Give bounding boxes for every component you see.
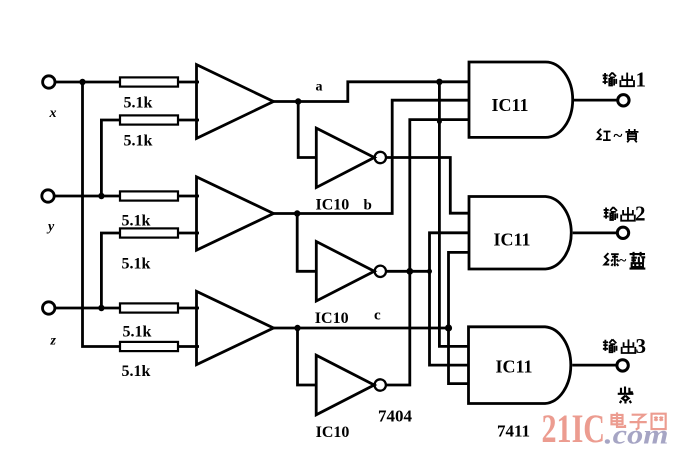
inverter U1 IC10: [316, 128, 374, 187]
svg-text:5.1k: 5.1k: [124, 95, 153, 112]
wire output 2: [573, 231, 617, 234]
resistor R1 5.1k: [120, 77, 178, 86]
svg-text:5.1k: 5.1k: [122, 256, 151, 273]
wire a to inverter U1 input: [298, 102, 317, 158]
wire node a: [274, 82, 470, 102]
inverter U3 bubble: [375, 379, 386, 390]
input terminal z: [43, 302, 55, 314]
node b dot: [294, 210, 300, 216]
node x junction: [79, 79, 85, 85]
inverter U1 bubble: [375, 152, 386, 163]
node blob at a/c-bar crossing: [437, 119, 442, 124]
output terminal 3: [617, 360, 628, 371]
svg-text:b: b: [364, 198, 372, 214]
resistor R5 5.1k: [120, 303, 178, 312]
svg-text:y: y: [46, 220, 55, 235]
node a2 dot: [436, 79, 442, 85]
svg-text:z: z: [50, 334, 57, 349]
buffer amp A3: [197, 291, 274, 364]
watermark 子: [630, 415, 647, 430]
wire R2 to buffer1: [178, 119, 199, 122]
inverter U3 IC10: [316, 355, 374, 415]
label 黄 of 红~黄: [625, 129, 638, 142]
wire z row: [55, 307, 120, 310]
output terminal 1: [618, 95, 629, 106]
wire output 3: [572, 364, 617, 367]
svg-text:7411: 7411: [497, 422, 530, 441]
label 输 of 输出3: [603, 339, 617, 352]
label 输 of 输出2: [604, 207, 618, 220]
node b-bar crossing dot: [406, 268, 413, 275]
wire y row: [54, 195, 120, 198]
svg-text:2: 2: [635, 202, 646, 226]
svg-text:~: ~: [614, 126, 623, 145]
node b-bar tee dot: [427, 269, 432, 274]
resistor R4 5.1k: [120, 228, 178, 237]
wire node c: [274, 327, 449, 330]
wire R4 to z row: [101, 233, 120, 308]
wire b-bar bus to AND2 mid and AND3 mid: [430, 233, 470, 365]
svg-text:a: a: [316, 80, 323, 95]
node a dot: [295, 98, 301, 104]
wire b to inverter U2 input: [297, 214, 317, 272]
inverter U2 IC10: [316, 242, 374, 302]
label 输 of 输出1: [603, 73, 617, 86]
svg-text:7404: 7404: [378, 407, 413, 426]
wire z-to-R6 vertical bus: [83, 82, 121, 347]
node z junction: [98, 305, 104, 311]
node y junction: [98, 193, 104, 199]
node c bus dot: [445, 324, 452, 331]
wire R1 to buffer1: [178, 81, 199, 84]
wire U2 out (b-bar): [386, 270, 430, 273]
svg-text:IC11: IC11: [492, 95, 529, 115]
wire R3 to buffer2: [178, 195, 199, 198]
input terminal x: [43, 76, 55, 88]
wire U3 out (c-bar) to AND1 bottom: [386, 120, 469, 385]
svg-text:x: x: [49, 106, 57, 121]
wire R5 to buffer3: [178, 307, 199, 310]
svg-text:1: 1: [636, 68, 647, 92]
svg-text:5.1k: 5.1k: [124, 133, 153, 150]
wire node b: [274, 100, 470, 213]
svg-text:IC11: IC11: [496, 357, 533, 377]
svg-text:~: ~: [619, 254, 627, 269]
wire U1 out to AND2 top: [386, 158, 469, 214]
svg-text:c: c: [374, 308, 381, 324]
svg-text:IC10: IC10: [316, 424, 350, 441]
resistor R2 5.1k: [120, 115, 178, 124]
svg-text:5.1k: 5.1k: [123, 324, 152, 341]
node c dot: [294, 325, 300, 331]
svg-text:5.1k: 5.1k: [122, 363, 151, 380]
svg-text:.com: .com: [605, 420, 669, 450]
label 出 of 输出3: [622, 339, 636, 353]
svg-text:21IC: 21IC: [542, 406, 606, 451]
svg-text:IC11: IC11: [494, 230, 531, 250]
output terminal 2: [617, 227, 628, 238]
buffer amp A2: [197, 177, 274, 250]
wire R4 to buffer2: [178, 232, 199, 235]
wire c to inverter U3 input: [298, 328, 318, 385]
input terminal y: [42, 190, 54, 202]
wire output 1: [573, 99, 618, 102]
label 出 of 输出1: [620, 73, 634, 87]
wire R6 to buffer3: [178, 345, 199, 348]
buffer amp A1: [197, 65, 274, 139]
wire x row: [55, 81, 120, 84]
watermark 网: [652, 414, 666, 429]
watermark 电: [611, 412, 625, 427]
resistor R3 5.1k: [120, 191, 178, 200]
label 蓝 of 绿~蓝: [629, 252, 645, 269]
AND gate G2 IC11: [469, 197, 571, 270]
label 绿 of 绿~蓝: [604, 253, 618, 266]
resistor R6 5.1k: [120, 342, 178, 351]
svg-text:5.1k: 5.1k: [122, 213, 151, 230]
wire a to AND3 top: [439, 82, 468, 347]
AND gate G1 IC11: [469, 62, 573, 137]
label 出 of 输出2: [621, 207, 635, 221]
svg-text:3: 3: [636, 334, 647, 358]
svg-text:IC10: IC10: [316, 197, 350, 214]
inverter U2 bubble: [375, 266, 386, 277]
svg-text:IC10: IC10: [315, 310, 349, 327]
label 紫: [618, 387, 634, 404]
wire c bus to AND2 bottom and AND3 bottom: [449, 252, 470, 383]
label 红 of 红~黄: [597, 129, 610, 140]
AND gate G3 IC11: [469, 327, 571, 404]
wire R2 to y row: [101, 120, 120, 196]
